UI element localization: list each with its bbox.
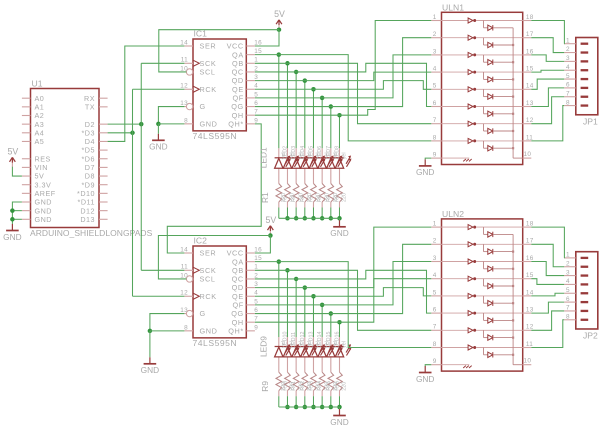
svg-text:16: 16 [254,39,262,46]
svg-text:yel: yel [342,341,348,348]
svg-text:15: 15 [254,48,262,55]
svg-text:IC2: IC2 [194,236,208,246]
connector JP2 box [576,252,598,329]
wire QC out (bank 2) [255,278,296,280]
ULN1 input pin 7 [431,117,441,124]
svg-text:9: 9 [254,324,258,331]
IC1 pin 13 G [180,100,206,111]
ULN2 output pin 12 [523,324,534,331]
wire QB to ULN in7 (bank 1) [287,63,431,123]
ULN2 input pin 6 [431,307,441,314]
ULN2 channel 6 driver [442,311,523,316]
svg-text:A2: A2 [35,111,45,120]
JP2 pin 8 [564,313,588,320]
wire R15 to bus [330,396,332,407]
ULN2 channel 5 driver [442,293,523,298]
LED LED6 [318,156,334,169]
wire ULN2 out 18 to JP2 pin 1 [531,227,564,258]
ULN2 channel 8 diode [484,348,515,358]
U1 pin 3.3V (left) [22,184,31,186]
LED LED2 [283,156,299,169]
wire QA to ULN in8 (bank 2) [279,262,432,348]
resistor R9 [276,372,282,391]
svg-text:2: 2 [254,272,258,279]
wire R6 to bus [321,208,323,219]
svg-text:8: 8 [566,313,570,320]
svg-text:7: 7 [433,117,437,124]
LED LED13 pins [312,337,314,347]
wire bus to ground (bank 2) [338,407,340,409]
svg-text:TX: TX [85,102,95,111]
wire QB to ULN in7 (bank 2) [287,270,431,330]
ULN2 channel 7 driver [442,328,523,333]
ULN1 channel 3 driver [442,52,523,57]
ULN2 channel 1 diode [484,227,514,237]
wire SCK vertical [140,63,142,270]
IC1 pin 16 VCC [227,39,263,50]
wire ULN1 out 12 to JP1 pin 7 [531,97,564,124]
JP1 pin 2 [564,46,588,53]
svg-text:5V: 5V [274,9,285,19]
wire IC2 ground drop [149,331,151,357]
supply 5V (U1) [10,157,16,167]
wire QC to ULN in6 (bank 1) [296,63,431,106]
ULN1 output pin 13 [523,100,534,107]
junction D2/SCK net [139,122,144,127]
ULN2 channel 5 diode [484,296,515,306]
svg-text:7: 7 [254,316,258,323]
U1 pin D4 (right) [99,140,108,142]
svg-text:5V: 5V [35,172,45,181]
IC1 pin 5 QF [232,91,258,102]
ULN1 channel 6 diode [484,107,515,117]
ULN1 output pin 12 [523,117,534,124]
wire QE column drop (bank 1) [312,89,314,148]
svg-text:A5: A5 [35,137,45,146]
svg-text:ULN1: ULN1 [442,3,464,13]
JP2 pin 7 [564,305,588,312]
svg-text:R16: R16 [334,381,340,391]
U1 pin *D9 (right) [99,184,108,186]
ULN1 input pin 4 [431,66,441,73]
JP1 pin 3 [564,55,588,62]
svg-text:LED3: LED3 [291,146,297,160]
IC2 pin 3 QD [232,281,259,292]
svg-text:3: 3 [433,48,437,55]
wire U1 GND pin 14 row [12,218,22,220]
svg-text:2: 2 [433,31,437,38]
IC2 pin 16 VCC [227,246,263,257]
wire QC to ULN in6 (bank 2) [296,270,431,313]
LED LED16 [335,344,351,357]
wire R9 to bus [278,396,280,407]
IC1 pin 8 GND [184,117,217,128]
junction bus (bank 2) [303,405,308,410]
LED LED9 [275,344,291,357]
ULN2 input pin 8 [431,341,441,348]
JP2 pin 6 [564,296,588,303]
IC1 pin 12 RCK [180,83,216,94]
LED LED5 pins [312,148,314,158]
svg-text:5: 5 [566,73,570,80]
ULN2 channel 7 diode [484,330,515,340]
svg-text:4: 4 [566,64,570,71]
svg-text:8: 8 [433,134,437,141]
LED LED13 [309,344,325,357]
LED LED1 [275,156,291,169]
ground (ULN2) [419,366,432,373]
ULN1 channel 1 diode [484,21,514,31]
svg-text:QH*: QH* [228,326,244,335]
wire QF out (bank 1) [255,97,322,99]
svg-text:2: 2 [566,46,570,53]
wire IC1 GND pin [158,123,184,125]
svg-text:15: 15 [526,66,534,73]
IC1 pin 4 QE [232,83,258,94]
ground (IC2) [144,357,157,364]
svg-text:LED10: LED10 [282,332,288,348]
wire R1 to bus [278,208,280,219]
junction QD (bank 1) [303,78,308,83]
resistor R3 [293,184,299,203]
IC2 pin 8 GND [184,324,217,335]
svg-text:11: 11 [181,57,188,64]
svg-text:1: 1 [566,37,570,44]
svg-text:R1: R1 [260,192,270,203]
svg-text:13: 13 [526,307,534,314]
ground (bank 1) [333,220,346,227]
svg-text:3: 3 [254,281,258,288]
wire QD out (bank 2) [255,287,305,289]
ULN1 channel 7 diode [484,124,515,134]
ULN1 output pin 14 [523,83,534,90]
svg-text:12: 12 [526,117,534,124]
wire QF column drop (bank 2) [321,305,323,337]
wire to IC1 SCK [141,62,184,64]
svg-text:8: 8 [566,99,570,106]
svg-text:LED12: LED12 [300,332,306,348]
wire QD column drop (bank 1) [304,81,306,149]
wire QF column drop (bank 1) [321,98,323,148]
IC2 pin 10 SCL [180,272,215,283]
ULN1 output pin 18 [523,14,534,21]
junction D3/RCK net [130,131,135,136]
wire IC1 ground drop [157,124,159,134]
wire QC out (bank 1) [255,71,296,73]
svg-text:QB: QB [232,59,244,68]
U1 pin A0 (left) [22,97,31,99]
wire ULN1 out 15 to JP1 pin 4 [531,70,564,72]
svg-text:QC: QC [232,275,244,284]
supply 5V (IC1) [276,20,282,30]
IC2 pin 5 QF [232,298,258,309]
ULN2 channel 6 diode [484,313,515,323]
svg-text:2: 2 [433,238,437,245]
wire QF out (bank 2) [255,304,322,306]
svg-text:JP1: JP1 [583,116,598,126]
svg-text:3: 3 [566,55,570,62]
U1 pin D7 (right) [99,166,108,168]
junction QB (bank 2) [285,268,290,273]
resistor R5 [311,184,317,203]
resistor R6 [319,184,325,203]
wire QC column drop (bank 1) [295,72,297,148]
svg-text:LED1: LED1 [259,147,269,168]
junction bus (bank 2) [311,405,316,410]
svg-text:D12: D12 [80,206,95,215]
svg-text:10: 10 [524,358,532,365]
junction bus (bank 1) [329,216,334,221]
svg-text:16: 16 [254,246,262,253]
svg-text:QG: QG [231,309,244,318]
svg-text:18: 18 [526,221,534,228]
JP2 pin 5 [564,287,588,294]
LED LED11 [292,344,308,357]
wire 5V to IC1 SCL [159,30,279,72]
svg-text:3: 3 [254,74,258,81]
junction U1 GND net [10,217,15,222]
resistor R15 [328,372,334,391]
svg-text:4: 4 [433,66,437,73]
resistor R11 [293,372,299,391]
svg-text:17: 17 [526,238,534,245]
svg-text:GND: GND [330,228,348,238]
svg-text:7: 7 [254,109,258,116]
svg-text:9: 9 [433,152,437,159]
svg-text:R10: R10 [282,381,288,391]
svg-text:SCK: SCK [200,59,217,68]
arduino shield U1 box [31,89,100,228]
wire net D2 clock [108,123,142,125]
wire QD column drop (bank 2) [304,288,306,337]
ULN2 common diode rail [512,234,514,364]
wire QE column drop (bank 2) [312,296,314,337]
junction QC (bank 1) [294,70,299,75]
svg-text:8: 8 [433,341,437,348]
ULN2 output pin 13 [523,307,534,314]
junction QE (bank 2) [311,294,316,299]
svg-text:LED15: LED15 [326,332,332,348]
junction IC2 ground [148,329,153,334]
ULN2 channel 4 diode [484,279,515,289]
svg-text:3: 3 [433,255,437,262]
svg-text:5V: 5V [8,147,19,157]
IC1 pin 15 QA [232,48,262,59]
wire QH to ULN in1 (bank 1) [339,21,431,116]
junction QH (bank 2) [337,320,342,325]
wire QH column drop (bank 1) [338,115,340,148]
resistor R16 [337,372,343,391]
svg-text:74LS595N: 74LS595N [193,338,238,348]
wire ULN2 out 12 to JP2 pin 7 [531,311,564,330]
svg-text:D2: D2 [85,120,95,129]
IC2 pin 15 QA [232,255,262,266]
ULN1 channel 8 driver [442,138,523,143]
svg-text:7: 7 [433,324,437,331]
svg-text:4: 4 [433,272,437,279]
IC2 pin 7 QH [232,316,259,327]
svg-text:R13: R13 [308,381,314,391]
wire ULN1 out 13 to JP1 pin 6 [531,88,564,107]
ULN2 channel 2 driver [442,242,523,247]
junction QA (bank 1) [277,52,282,57]
ULN2 channel 2 diode [484,244,515,254]
wire QG out (bank 1) [255,106,331,108]
ULN1 channel 5 driver [442,87,523,92]
svg-text:*D9: *D9 [82,180,96,189]
junction bus (bank 1) [337,216,342,221]
svg-text:LED5: LED5 [308,146,314,160]
U1 pin D12 (right) [99,210,108,212]
wire IC2 G to ground [150,314,185,331]
wire bus to ground (bank 1) [338,218,340,220]
svg-text:R8: R8 [334,195,340,202]
svg-text:6: 6 [566,296,570,303]
IC2 pin 13 G [180,307,206,318]
ULN2 output pin 18 [523,221,534,228]
svg-text:2: 2 [254,65,258,72]
svg-text:QA: QA [232,257,244,266]
ULN2 input pin 7 [431,324,441,331]
LED LED5 [309,156,325,169]
svg-text:8: 8 [184,324,188,331]
wire ULN2 pin9 to ground [425,365,431,366]
svg-text:SER: SER [200,42,217,51]
LED LED3 [292,156,308,169]
svg-text:QA: QA [232,50,244,59]
wire R2 to bus [286,208,288,219]
svg-text:R3: R3 [291,195,297,202]
ULN1 input pin 5 [431,83,441,90]
ULN1 output pin 16 [523,48,534,55]
U1 pin *D6 (right) [99,158,108,160]
svg-text:SCK: SCK [200,266,217,275]
junction QG (bank 2) [329,311,334,316]
svg-text:4: 4 [254,290,258,297]
U1 pin RX (right) [99,97,108,99]
svg-text:3.3V: 3.3V [35,180,52,189]
svg-text:15: 15 [254,255,262,262]
svg-text:13: 13 [180,307,188,314]
svg-text:6: 6 [433,100,437,107]
JP1 pin 6 [564,82,588,89]
svg-text:GND: GND [35,198,52,207]
ULN1 channel 4 diode [484,72,515,82]
svg-text:GND: GND [35,215,52,224]
ULN1 channel 1 driver [442,18,523,23]
junction 5V IC2 net [268,233,273,238]
svg-text:1: 1 [566,252,570,259]
svg-text:R14: R14 [317,381,323,391]
JP2 pin 1 [564,252,588,259]
junction QB (bank 1) [285,61,290,66]
U1 pin VIN (left) [22,166,31,168]
wire to IC2 SCK [141,269,184,271]
wire QA out (bank 1) [255,54,279,56]
U1 pin GND (left) [22,201,31,203]
wire ULN1 out 18 to JP1 pin 1 [531,21,564,44]
ULN2 channel 3 driver [442,259,523,264]
IC2 pin 9 QH* [228,324,258,335]
ULN1 channel 4 driver [442,70,523,75]
svg-text:QC: QC [232,68,244,77]
svg-text:6: 6 [433,307,437,314]
wire 5V to IC2 VCC [255,236,271,254]
svg-text:10: 10 [524,151,532,158]
svg-text:7: 7 [566,90,570,97]
LED LED15 pins [330,337,332,347]
ULN1 channel 6 driver [442,104,523,109]
svg-text:18: 18 [526,14,534,21]
JP1 pin 5 [564,73,588,80]
U1 pin AREF (left) [22,192,31,194]
svg-text:13: 13 [526,100,534,107]
svg-text:D4: D4 [85,137,95,146]
wire ULN2 out 11 to JP2 pin 8 [531,320,564,348]
svg-text:16: 16 [526,255,534,262]
ULN2 output pin 16 [523,255,534,262]
svg-text:1: 1 [433,14,437,21]
svg-text:1: 1 [254,264,258,271]
junction bus (bank 2) [329,405,334,410]
wire QH column drop (bank 2) [338,322,340,337]
LED LED8 [335,156,351,169]
ULN1 channel 5 diode [484,89,515,99]
svg-text:5: 5 [566,287,570,294]
svg-text:VIN: VIN [35,163,48,172]
resistor R4 [302,184,308,203]
svg-text:QG: QG [231,102,244,111]
LED LED7 [327,156,343,169]
svg-text:1: 1 [254,57,258,64]
JP1 pin 7 [564,90,588,97]
IC2 pin 12 RCK [180,290,216,301]
ULN2 output pin 14 [523,289,534,296]
wire to IC2 RCK [133,295,185,297]
wire QD out (bank 1) [255,80,305,82]
wire R8 to bus [338,208,340,219]
wire U1 GND pins to ground [12,202,22,224]
svg-text:AREF: AREF [35,189,56,198]
ULN2 output pin 17 [523,238,534,245]
wire ULN1 pin9 to ground [425,158,431,159]
svg-text:QH: QH [232,111,244,120]
svg-text:GND: GND [35,206,52,215]
svg-text:SER: SER [200,249,217,258]
svg-text:6: 6 [254,100,258,107]
svg-text:GND: GND [141,365,159,375]
LED LED14 pins [321,337,323,347]
wire LED bus (bank 2) [279,406,340,408]
IC1 pin 14 SER [180,39,216,50]
U1 pin D2 (right) [99,123,108,125]
svg-text:7: 7 [566,305,570,312]
wire QG column drop (bank 1) [330,107,332,149]
resistor R13 [311,372,317,391]
U1 pin *D10 (right) [99,192,108,194]
wire ULN2 out 14 to JP2 pin 5 [531,293,564,296]
junction bus (bank 2) [320,405,325,410]
wire R3 to bus [295,208,297,219]
svg-text:RX: RX [84,94,95,103]
ULN2 channel 4 driver [442,276,523,281]
wire net D4 to IC1 SER [108,46,185,141]
svg-text:SCL: SCL [200,275,216,284]
JP2 pin 3 [564,269,588,276]
svg-text:6: 6 [254,307,258,314]
wire QA to ULN in8 (bank 1) [279,55,432,141]
svg-text:14: 14 [180,39,188,46]
